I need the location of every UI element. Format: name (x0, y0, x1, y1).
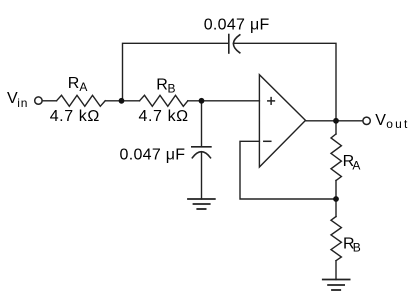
svg-text:B: B (168, 82, 176, 96)
svg-text:R: R (68, 75, 80, 92)
svg-text:0.047 μF: 0.047 μF (204, 16, 270, 33)
svg-text:B: B (353, 241, 361, 255)
svg-text:in: in (17, 96, 28, 110)
svg-text:4.7 kΩ: 4.7 kΩ (50, 108, 100, 125)
svg-text:out: out (386, 117, 409, 131)
svg-text:4.7 kΩ: 4.7 kΩ (139, 108, 189, 125)
svg-text:0.047 μF: 0.047 μF (120, 147, 186, 164)
svg-text:A: A (352, 159, 360, 173)
svg-text:R: R (156, 77, 168, 94)
svg-text:V: V (375, 112, 386, 129)
svg-text:A: A (79, 80, 87, 94)
